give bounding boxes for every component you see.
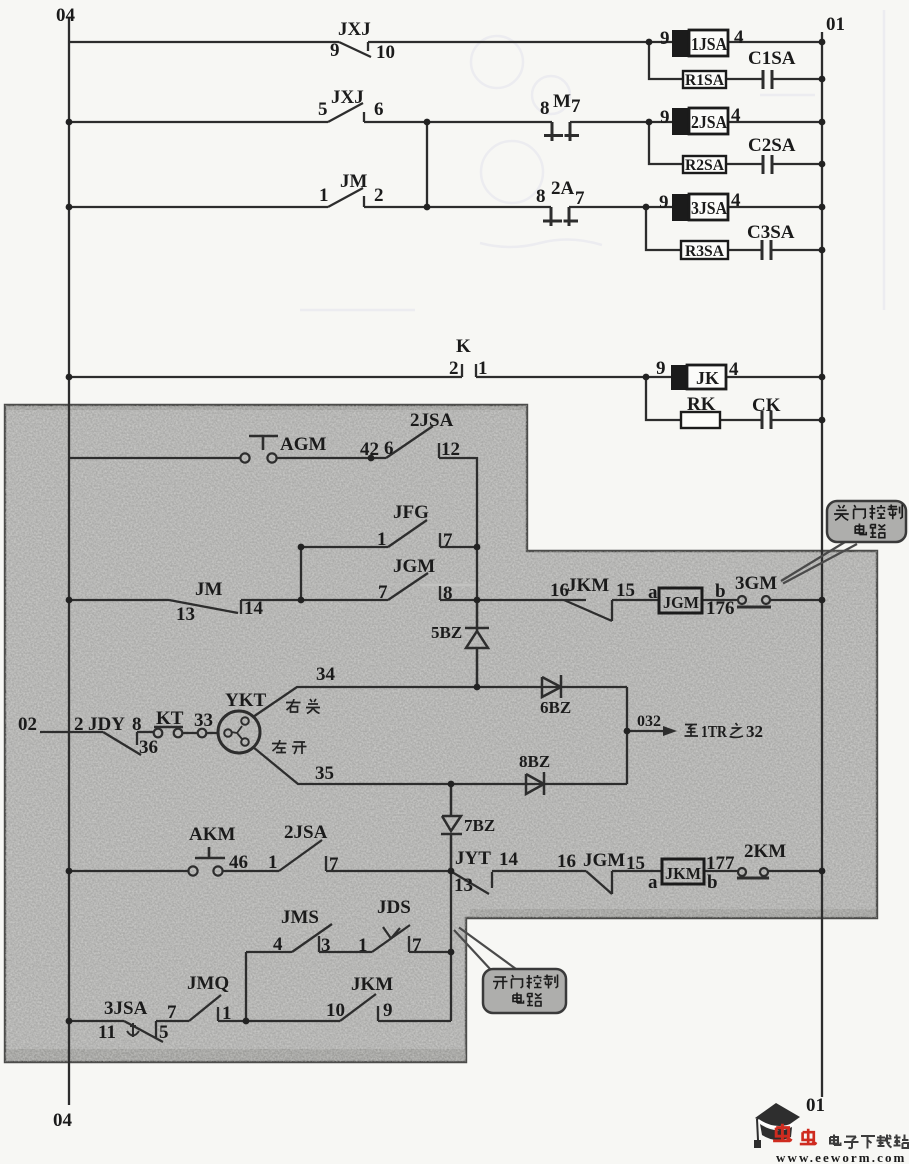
svg-text:13: 13 [176, 604, 195, 625]
wire row1 to coil [368, 41, 672, 43]
svg-text:7: 7 [571, 96, 581, 117]
svg-text:6: 6 [374, 99, 384, 120]
svg-text:R2SA: R2SA [685, 157, 724, 174]
contact JXJ 5-6 [328, 103, 364, 122]
capacitor C3SA [762, 240, 771, 260]
svg-text:5BZ: 5BZ [431, 623, 462, 642]
svg-text:R1SA: R1SA [685, 72, 724, 89]
svg-text:C3SA: C3SA [747, 222, 795, 243]
svg-text:01: 01 [826, 14, 845, 35]
svg-text:3GM: 3GM [735, 573, 777, 594]
svg-text:JK: JK [696, 368, 719, 388]
node row3 coil branch [643, 204, 650, 211]
contact JKM 16-15 [564, 600, 612, 621]
svg-text:CK: CK [752, 395, 781, 416]
wire row1 left [69, 41, 339, 43]
label zhi 1TR zhi 32 [685, 723, 744, 737]
node row2 mid [424, 119, 431, 126]
svg-text:15: 15 [626, 853, 645, 874]
svg-text:1TR: 1TR [701, 722, 728, 741]
wire 02 row [40, 731, 103, 733]
contact 2JSA 1-7 [279, 840, 326, 871]
svg-text:2: 2 [449, 358, 459, 379]
svg-text:2: 2 [374, 185, 384, 206]
wire riser 7BZ column [450, 871, 452, 1021]
top ladder labels [56, 5, 845, 416]
svg-text:7: 7 [167, 1002, 177, 1023]
wire riser to R1SA [649, 42, 683, 79]
svg-text:35: 35 [315, 763, 334, 784]
wire JMQ to node [218, 1020, 340, 1022]
terminal 33 circle [198, 729, 207, 738]
relay coil 2JSA [672, 108, 728, 135]
junction dots gray region [66, 455, 826, 1025]
svg-text:JKM: JKM [351, 974, 393, 995]
svg-text:K: K [456, 336, 471, 357]
wire KT to 33 [182, 732, 198, 734]
svg-text:4: 4 [731, 105, 741, 126]
svg-text:33: 33 [194, 710, 213, 731]
node bottom riser [243, 1018, 250, 1025]
svg-text:02: 02 [18, 714, 37, 735]
svg-text:9: 9 [659, 192, 669, 213]
right bus 01 [821, 32, 823, 1097]
svg-text:5: 5 [159, 1022, 169, 1043]
label zuokai 左开 [272, 740, 307, 754]
wire YKT to 34 [253, 687, 627, 717]
svg-text:9: 9 [656, 358, 666, 379]
svg-text:C1SA: C1SA [748, 48, 796, 69]
wire JYT to JGM [492, 870, 586, 872]
svg-text:R3SA: R3SA [685, 243, 724, 260]
svg-text:3: 3 [321, 935, 331, 956]
relay coil JGM box [659, 588, 702, 613]
wire 33 to YKT [206, 732, 218, 734]
node R2SA bus [819, 161, 826, 168]
wire coil JGM to 3GM [702, 599, 738, 601]
node AKM riser [448, 868, 455, 875]
svg-text:04: 04 [56, 5, 76, 26]
latch mark 3JSA [127, 1023, 139, 1037]
wire 2JSA to riser [326, 870, 451, 872]
svg-text:8: 8 [443, 583, 453, 604]
faint scan ghosts top area [300, 10, 884, 585]
junction dots top ladder [66, 39, 826, 424]
wire row2 coil to bus [728, 121, 822, 123]
node row4 bus [819, 374, 826, 381]
svg-text:1: 1 [222, 1003, 232, 1024]
wire 2JSA to corner [439, 458, 477, 600]
svg-text:b: b [707, 872, 718, 893]
svg-text:RK: RK [687, 394, 716, 415]
node JGM 5BZ [474, 597, 481, 604]
svg-text:13: 13 [454, 875, 473, 896]
capacitor C1SA [763, 70, 772, 89]
svg-text:1: 1 [358, 935, 368, 956]
wire AGM to node 42 [277, 457, 386, 459]
wire bottom row left [69, 1020, 124, 1022]
node row4 left bus [66, 374, 73, 381]
svg-text:a: a [648, 872, 658, 893]
wire 3GM to bus [770, 599, 822, 601]
contact M 8-7 [544, 122, 579, 141]
arrowhead 032 [663, 726, 677, 736]
svg-text:01: 01 [806, 1095, 825, 1116]
svg-text:4: 4 [731, 190, 741, 211]
wire C2SA to bus [772, 163, 822, 165]
svg-text:2JSA: 2JSA [410, 410, 454, 431]
wire CK to bus [771, 419, 822, 421]
capacitor C2SA [763, 155, 772, 174]
watermark chongchong 虫虫 red [773, 1124, 817, 1144]
node 35 7BZ [448, 781, 455, 788]
svg-text:8: 8 [132, 714, 142, 735]
svg-text:7BZ: 7BZ [464, 816, 495, 835]
svg-text:176: 176 [706, 598, 735, 619]
svg-text:4: 4 [734, 27, 744, 48]
wire JMS row [246, 951, 292, 953]
contact JFG 1-7 [388, 520, 440, 547]
resistor R3SA [681, 241, 728, 260]
svg-text:2: 2 [74, 714, 84, 735]
svg-text:16: 16 [557, 851, 576, 872]
diode 7BZ [441, 784, 462, 871]
wire JM row left [69, 599, 169, 601]
diode 5BZ [465, 600, 489, 687]
node JMS riser [448, 949, 455, 956]
callout box close-door control 关门控制电路 [781, 501, 906, 584]
capacitor CK [762, 411, 771, 429]
relay coil 1JSA [672, 30, 728, 57]
wire node to JKM [477, 599, 586, 601]
wire JGM to node [440, 599, 477, 601]
resistor R1SA [683, 71, 726, 89]
wire AKM to 2JSA [223, 870, 279, 872]
wire row4 to coil [476, 376, 671, 378]
wire 2KM to bus [768, 870, 822, 872]
node AKM left bus [66, 868, 73, 875]
node JM riser [298, 597, 305, 604]
wire riser to RK [646, 377, 681, 420]
wire coil JKM to 2KM [704, 870, 738, 872]
wire R3SA to C3SA [728, 249, 762, 251]
node row3 bus [819, 204, 826, 211]
contact JYT 13-14 [452, 872, 492, 894]
wire AKM row left [69, 870, 188, 872]
wire row4 coil to bus [726, 376, 822, 378]
svg-text:JGM: JGM [583, 850, 625, 871]
svg-text:15: 15 [616, 580, 635, 601]
diode 8BZ [526, 772, 544, 795]
svg-text:8BZ: 8BZ [519, 752, 550, 771]
svg-text:JDS: JDS [377, 897, 411, 918]
svg-text:2A: 2A [551, 178, 575, 199]
svg-text:AKM: AKM [189, 824, 236, 845]
svg-text:3JSA: 3JSA [104, 998, 148, 1019]
svg-text:JDY: JDY [88, 714, 125, 735]
contact JDY 2-8-36 [103, 732, 141, 755]
wire node 032 arrow [627, 730, 664, 732]
node 032 [624, 728, 631, 735]
node row2 coil branch [646, 119, 653, 126]
node R3SA bus [819, 247, 826, 254]
svg-text:32: 32 [746, 722, 763, 741]
node 34 5BZ [474, 684, 481, 691]
svg-text:1: 1 [319, 185, 329, 206]
relay coil JK [671, 365, 726, 390]
svg-text:1: 1 [268, 852, 278, 873]
wire JDY to KT [137, 731, 153, 733]
label youguan 右关 [286, 699, 320, 714]
svg-text:JXJ: JXJ [338, 19, 371, 40]
node AKM bus [819, 868, 826, 875]
svg-text:4: 4 [273, 934, 283, 955]
wire row2 to coil [570, 121, 672, 123]
svg-text:7: 7 [412, 935, 422, 956]
svg-text:8: 8 [540, 98, 550, 119]
svg-text:JKM: JKM [567, 575, 609, 596]
relay coil JKM box [662, 859, 704, 884]
wire row4 left [69, 376, 462, 378]
svg-text:JM: JM [340, 171, 368, 192]
svg-text:46: 46 [229, 852, 248, 873]
wire R2SA to C2SA [726, 163, 763, 165]
wire R1SA to C1SA [726, 78, 763, 80]
svg-text:JMQ: JMQ [187, 973, 229, 994]
svg-text:2JSA: 2JSA [691, 112, 727, 132]
node JM left bus [66, 597, 73, 604]
svg-text:42: 42 [360, 439, 379, 460]
svg-text:8: 8 [536, 186, 546, 207]
contact 2JSA 6-12 [386, 426, 439, 458]
resistor R2SA [683, 156, 726, 174]
gray region labels [18, 410, 825, 1131]
contact JGM 16-15 [586, 871, 612, 894]
wire JKM to coil JGM [612, 599, 659, 601]
svg-text:JM: JM [195, 579, 223, 600]
button KT [154, 729, 163, 738]
contact JM 13-14 [169, 600, 241, 614]
contact JMQ 7-1 [189, 995, 221, 1021]
svg-text:14: 14 [499, 849, 519, 870]
svg-text:10: 10 [326, 1000, 345, 1021]
contact K 2-1 [462, 364, 476, 377]
watermark graduation cap [754, 1103, 800, 1148]
svg-text:2KM: 2KM [744, 841, 786, 862]
pushbutton AKM [188, 866, 197, 875]
wire JFG to node [440, 546, 477, 548]
svg-text:10: 10 [376, 42, 395, 63]
contact 2A 8-7 [543, 207, 578, 226]
svg-text:JMS: JMS [281, 907, 319, 928]
svg-text:7: 7 [443, 530, 453, 551]
wire row3 coil to bus [728, 206, 822, 208]
svg-text:9: 9 [660, 28, 670, 49]
watermark site name 电子下载站 [830, 1135, 909, 1149]
contact JKM 10-9 [340, 994, 378, 1021]
wire AGM row left [69, 457, 240, 459]
svg-text:JYT: JYT [455, 848, 491, 869]
svg-text:1: 1 [377, 529, 387, 550]
node row2 bus [819, 119, 826, 126]
node row3 left bus [66, 204, 73, 211]
node row3 mid [424, 204, 431, 211]
node JFG left [298, 544, 305, 551]
callout box open-door control 开门控制电路 [454, 928, 566, 1014]
wire 34-35 right vertical [626, 687, 628, 784]
wire riser to R2SA [649, 122, 683, 164]
node row2 left bus [66, 119, 73, 126]
svg-text:7: 7 [575, 188, 585, 209]
svg-text:JGM: JGM [663, 593, 699, 612]
svg-text:www.eeworm.com: www.eeworm.com [776, 1150, 906, 1164]
svg-text:a: a [648, 582, 658, 603]
contact JMS 4-3 [292, 924, 332, 952]
switch YKT circle [218, 711, 260, 753]
contact JGM 7-8 [388, 573, 440, 600]
left bus 04 [68, 17, 70, 1105]
svg-text:12: 12 [441, 439, 460, 460]
wire vertical row2-row3 [426, 122, 428, 207]
wire JMS to JDS [319, 951, 372, 953]
svg-text:1JSA: 1JSA [691, 34, 727, 54]
switch 2KM [738, 868, 746, 876]
svg-text:7: 7 [378, 582, 388, 603]
wire JM to riser [241, 599, 388, 601]
node bottom left bus [66, 1018, 73, 1025]
svg-text:04: 04 [53, 1110, 73, 1131]
switch 3GM [738, 596, 746, 604]
gray region edge shading [6, 406, 876, 1061]
svg-text:14: 14 [244, 598, 264, 619]
svg-text:032: 032 [637, 713, 661, 730]
svg-text:M: M [553, 91, 571, 112]
svg-text:C2SA: C2SA [748, 135, 796, 156]
contact 3JSA 11-5 [124, 1021, 163, 1042]
svg-text:KT: KT [156, 708, 184, 729]
node JFG right [474, 544, 481, 551]
svg-text:3JSA: 3JSA [691, 198, 727, 218]
wire JKM to riser corner [378, 1020, 451, 1022]
svg-text:JXJ: JXJ [331, 87, 364, 108]
svg-text:JKM: JKM [665, 864, 701, 883]
wire row3 mid [364, 206, 551, 208]
svg-text:6: 6 [384, 438, 394, 459]
node RK bus [819, 417, 826, 424]
gray photocopy region [5, 405, 877, 1062]
wire riser JMS row [245, 952, 247, 1021]
wire JFG row [301, 547, 388, 600]
node row1 coil branch [646, 39, 653, 46]
wire row3 to coil [569, 206, 672, 208]
wire row3 left [69, 206, 328, 208]
svg-text:7: 7 [329, 854, 339, 875]
svg-text:9: 9 [660, 107, 670, 128]
wire C1SA to bus [772, 78, 822, 80]
resistor RK [681, 412, 720, 428]
node row4 coil branch [643, 374, 650, 381]
wire row1 coil to bus [728, 41, 822, 43]
svg-text:5: 5 [318, 99, 328, 120]
relay coil 3JSA [672, 194, 728, 221]
svg-text:1: 1 [478, 358, 488, 379]
svg-text:9: 9 [383, 1000, 393, 1021]
wire riser to R3SA [646, 207, 681, 250]
svg-text:177: 177 [706, 853, 735, 874]
svg-text:4: 4 [729, 359, 739, 380]
svg-text:2JSA: 2JSA [284, 822, 328, 843]
wire RK to CK [720, 419, 762, 421]
svg-text:AGM: AGM [280, 434, 327, 455]
wire C3SA to bus [771, 249, 822, 251]
svg-text:JGM: JGM [393, 556, 435, 577]
node JM bus [819, 597, 826, 604]
svg-text:9: 9 [330, 40, 340, 61]
wire JDS to riser [409, 951, 451, 953]
contact JM 1-2 [328, 188, 364, 207]
wire row2 left [69, 121, 328, 123]
svg-text:YKT: YKT [225, 690, 267, 711]
wire YKT to 35 [253, 747, 627, 784]
svg-text:JFG: JFG [393, 502, 429, 523]
node 42 [368, 455, 375, 462]
pushbutton AGM [240, 453, 249, 462]
diode 6BZ [542, 675, 561, 698]
wire row2 mid [364, 121, 552, 123]
svg-text:6BZ: 6BZ [540, 698, 571, 717]
contact JXJ 9-10 [339, 42, 371, 57]
wire 3JSA to JMQ [156, 1020, 189, 1022]
node R1SA bus [819, 76, 826, 83]
svg-text:36: 36 [139, 737, 158, 758]
contact JDS 1-7 [372, 925, 410, 952]
svg-text:34: 34 [316, 664, 336, 685]
node row1 bus [819, 39, 826, 46]
svg-text:11: 11 [98, 1022, 116, 1043]
wire JGM to coil JKM [612, 870, 662, 872]
